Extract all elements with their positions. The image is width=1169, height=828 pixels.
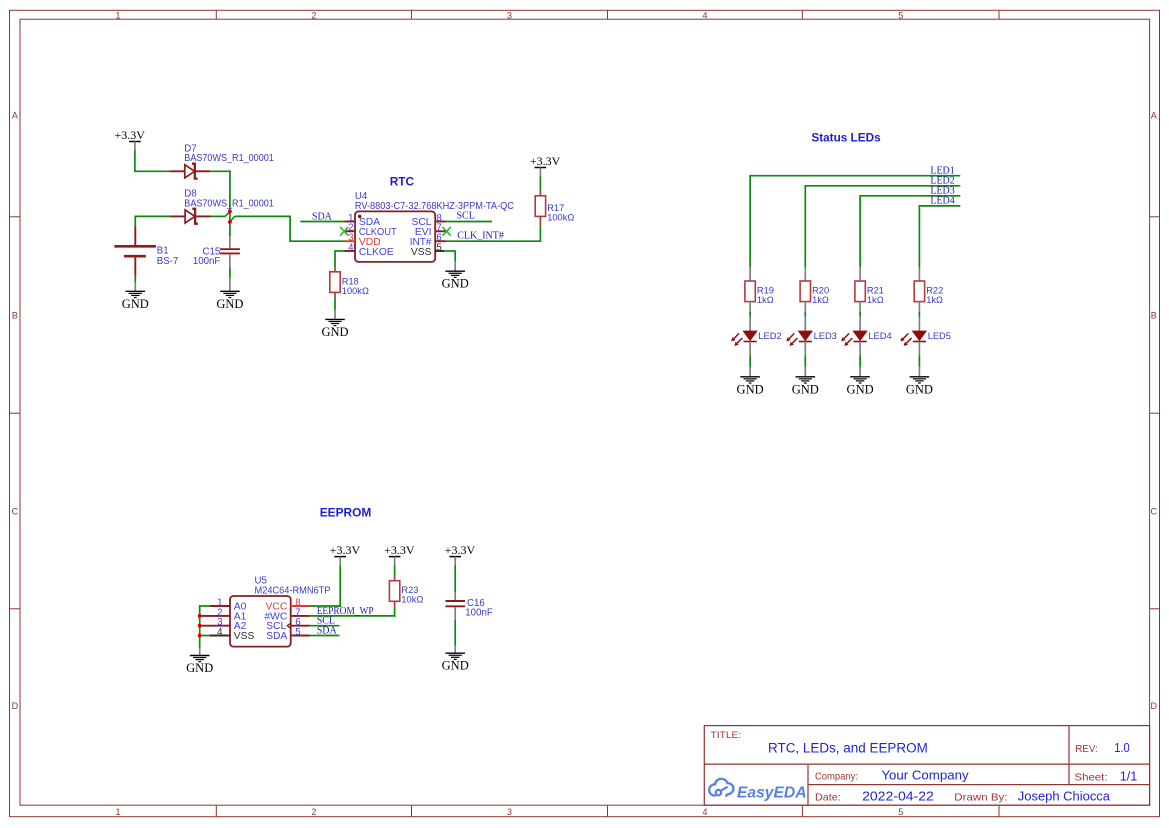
svg-text:1kΩ: 1kΩ	[926, 295, 943, 305]
svg-text:LED3: LED3	[814, 331, 837, 341]
svg-text:EasyEDA: EasyEDA	[737, 784, 807, 801]
ground U5	[186, 656, 213, 676]
ground C15	[216, 291, 243, 311]
wire junction down to C15	[229, 211, 231, 236]
svg-text:4: 4	[702, 10, 707, 20]
power flag +3.3V R23	[384, 543, 415, 566]
wire + net label SCL (U5)	[309, 616, 340, 627]
svg-text:3: 3	[507, 807, 512, 817]
svg-text:R21: R21	[867, 286, 884, 296]
svg-text:1.0: 1.0	[1114, 740, 1130, 755]
resistor R19	[745, 281, 774, 305]
wire +3.3V to R17	[539, 177, 541, 196]
svg-text:5: 5	[898, 807, 903, 817]
wire +3.3V to C16	[454, 566, 456, 601]
junction dots on address bus	[198, 614, 202, 638]
svg-text:Date:: Date:	[815, 793, 841, 804]
wire R to LED	[804, 302, 806, 331]
svg-text:R18: R18	[342, 277, 359, 287]
LED LED4	[841, 331, 892, 346]
wire A0/A1/A2/VSS bus to GND	[200, 605, 211, 655]
svg-text:D: D	[1151, 701, 1158, 711]
resistor R17	[535, 196, 574, 223]
capacitor C16	[446, 598, 493, 619]
svg-text:GND: GND	[847, 382, 874, 396]
svg-text:TITLE:: TITLE:	[711, 730, 742, 741]
svg-text:100nF: 100nF	[193, 256, 221, 267]
wire LED3 down to R	[859, 196, 861, 281]
EasyEDA logo	[709, 779, 806, 801]
svg-text:5: 5	[898, 10, 903, 20]
wire + net label LED2	[804, 175, 960, 186]
power flag +3.3V R17	[530, 154, 561, 177]
svg-text:VSS: VSS	[234, 631, 255, 642]
svg-text:B: B	[12, 310, 18, 320]
wire R to LED	[918, 302, 920, 331]
svg-text:+3.3V: +3.3V	[445, 543, 476, 557]
resistor R21	[855, 281, 884, 305]
svg-text:M24C64-RMN6TP: M24C64-RMN6TP	[255, 585, 331, 596]
U5 pin 4 VSS	[199, 627, 255, 642]
diode D8 (schottky)	[170, 209, 210, 224]
svg-text:Joseph Chiocca: Joseph Chiocca	[1018, 789, 1111, 804]
svg-text:1kΩ: 1kΩ	[867, 295, 884, 305]
svg-text:GND: GND	[186, 661, 213, 675]
svg-text:4: 4	[348, 242, 354, 253]
svg-text:CLK_INT#: CLK_INT#	[457, 231, 504, 242]
svg-text:CLKOE: CLKOE	[359, 247, 394, 258]
wire + net label LED4	[919, 196, 961, 207]
diode D7 (schottky)	[170, 164, 210, 179]
svg-text:BAS70WS_R1_00001: BAS70WS_R1_00001	[184, 153, 273, 164]
svg-text:GND: GND	[216, 297, 243, 311]
svg-text:100kΩ: 100kΩ	[547, 213, 574, 223]
svg-text:+3.3V: +3.3V	[330, 543, 361, 557]
U4 pin-1 marker dot	[358, 215, 361, 218]
U5 pin 1 A0	[210, 597, 247, 612]
wire C16 to GND	[454, 607, 456, 653]
svg-text:GND: GND	[792, 382, 819, 396]
U4 pin 2 CLKOUT (no connect)	[340, 223, 397, 238]
svg-text:BS-7: BS-7	[157, 256, 179, 267]
svg-text:5: 5	[295, 627, 300, 638]
ground B1	[122, 291, 149, 311]
ground LED5	[906, 377, 933, 397]
U5 pin 3 A2	[201, 617, 247, 632]
svg-text:2: 2	[311, 10, 316, 20]
svg-text:GND: GND	[737, 382, 764, 396]
svg-text:Your Company: Your Company	[881, 768, 969, 783]
wire LED to GND	[918, 342, 920, 377]
U4 pin 5 VSS	[411, 242, 444, 257]
svg-text:2022-04-22: 2022-04-22	[862, 789, 934, 804]
resistor R22	[914, 281, 943, 305]
U4 pin 4 CLKOE	[345, 242, 394, 257]
junction node dots	[228, 209, 232, 223]
wire LED to GND	[804, 342, 806, 377]
svg-text:A: A	[12, 110, 18, 120]
wire +3.3V to VCC pin 8	[309, 566, 341, 607]
svg-text:D: D	[12, 701, 19, 711]
wire LED2 down to R	[804, 186, 806, 281]
IC U5 body	[230, 596, 291, 647]
svg-text:4: 4	[702, 807, 707, 817]
svg-text:10kΩ: 10kΩ	[401, 595, 423, 605]
U4 pin 8 SCL	[411, 213, 445, 228]
power flag +3.3V U5 VCC	[330, 543, 361, 566]
svg-text:1kΩ: 1kΩ	[812, 295, 829, 305]
U5 pin 7 #WC	[264, 607, 309, 622]
svg-text:LED4: LED4	[930, 196, 954, 207]
wire + net label LED1	[749, 165, 960, 176]
wire C15 to GND	[229, 267, 231, 291]
battery B1	[114, 226, 178, 275]
wire LED to GND	[859, 342, 861, 377]
svg-text:GND: GND	[442, 277, 469, 291]
svg-text:R22: R22	[926, 286, 943, 296]
svg-text:B: B	[1151, 310, 1157, 320]
LED LED5	[900, 331, 951, 346]
wire + net label CLK_INT#	[446, 231, 541, 242]
IC U4 reference labels	[355, 191, 514, 212]
svg-text:100nF: 100nF	[465, 608, 493, 619]
svg-text:Company:: Company:	[815, 772, 858, 783]
svg-text:LED2: LED2	[758, 331, 781, 341]
svg-text:Drawn By:: Drawn By:	[954, 793, 1007, 804]
wire LED4 down to R	[918, 206, 920, 281]
svg-text:BAS70WS_R1_00001: BAS70WS_R1_00001	[184, 198, 273, 209]
wire battery to GND	[134, 276, 136, 291]
svg-text:+3.3V: +3.3V	[384, 543, 415, 557]
wire R to LED	[749, 302, 751, 331]
svg-text:LED4: LED4	[868, 331, 891, 341]
capacitor C15	[193, 236, 240, 267]
ground LED3	[792, 377, 819, 397]
svg-text:SCL: SCL	[457, 210, 475, 221]
wire LED1 down to R	[749, 176, 751, 281]
LED LED3	[786, 331, 837, 346]
svg-text:1: 1	[115, 10, 120, 20]
wire battery top to D8 anode	[134, 216, 170, 227]
U4 pin 1 SDA	[345, 213, 381, 228]
svg-text:+3.3V: +3.3V	[530, 154, 561, 168]
wire R23 to #WC + net label EEPROM_WP	[309, 601, 395, 617]
svg-text:C: C	[1151, 506, 1158, 516]
wire R17 to INT#	[539, 216, 541, 242]
svg-text:GND: GND	[442, 659, 469, 673]
svg-text:Status LEDs: Status LEDs	[811, 132, 880, 144]
svg-text:3: 3	[507, 10, 512, 20]
power flag +3.3V C16	[445, 543, 476, 566]
svg-text:R19: R19	[757, 286, 774, 296]
svg-text:SDA: SDA	[266, 631, 287, 642]
resistor R18	[330, 272, 369, 296]
title block texts	[711, 730, 1138, 804]
wire R to LED	[859, 302, 861, 331]
U5 pin 5 SDA	[266, 627, 310, 642]
title block	[704, 726, 1149, 806]
label D7	[184, 144, 273, 165]
svg-text:LED5: LED5	[928, 331, 951, 341]
svg-text:VSS: VSS	[411, 247, 432, 258]
svg-text:REV:: REV:	[1075, 744, 1098, 755]
wire + net label SDA	[300, 211, 344, 222]
wire VSS to GND	[444, 251, 456, 271]
svg-text:1kΩ: 1kΩ	[757, 295, 774, 305]
svg-text:GND: GND	[906, 382, 933, 396]
wire LED to GND	[749, 342, 751, 377]
ground LED4	[847, 377, 874, 397]
svg-text:A: A	[1151, 110, 1157, 120]
U4 pin 7 EVI (no connect)	[415, 223, 451, 238]
svg-text:SDA: SDA	[317, 626, 338, 637]
svg-text:1/1: 1/1	[1120, 769, 1138, 784]
U5 pin 6 SCL (clock wedge)	[266, 617, 310, 632]
resistor R20	[800, 281, 829, 305]
svg-text:B1: B1	[157, 246, 169, 257]
svg-text:Sheet:: Sheet:	[1075, 773, 1108, 784]
svg-text:SDA: SDA	[312, 211, 333, 222]
svg-text:RTC, LEDs, and EEPROM: RTC, LEDs, and EEPROM	[768, 741, 928, 756]
ground U4 VSS	[442, 271, 469, 291]
svg-text:4: 4	[217, 627, 223, 638]
ground C16	[442, 653, 469, 673]
wire + net label SCL	[446, 210, 492, 221]
svg-text:R17: R17	[547, 203, 564, 213]
wire D8 cathode to junction jog	[211, 211, 345, 241]
svg-text:RTC: RTC	[390, 175, 415, 189]
U5 pin 2 A1	[201, 607, 247, 622]
resistor R23	[389, 581, 423, 605]
U5 pin 8 VCC	[266, 597, 310, 612]
wire +3.3V to R23	[394, 566, 396, 581]
wire + net label SDA (U5)	[309, 626, 340, 637]
svg-text:+3.3V: +3.3V	[114, 128, 145, 142]
wire R18 to GND	[334, 292, 336, 319]
U4 pin 6 INT#	[410, 233, 446, 248]
IC U5 labels	[255, 576, 331, 597]
svg-text:C: C	[12, 506, 19, 516]
svg-text:R20: R20	[812, 286, 829, 296]
svg-text:1: 1	[115, 807, 120, 817]
svg-text:5: 5	[436, 242, 441, 253]
wire +3.3V to D7 anode	[134, 151, 170, 173]
ground LED2	[737, 377, 764, 397]
svg-text:GND: GND	[122, 297, 149, 311]
svg-text:2: 2	[311, 807, 316, 817]
wire CLKOE to R18	[335, 250, 345, 272]
LED LED2	[731, 331, 782, 346]
power flag +3.3V PWR1	[114, 128, 145, 151]
ground R18	[321, 319, 348, 339]
wire D7 cathode to junction	[210, 170, 230, 211]
svg-text:EEPROM: EEPROM	[320, 508, 372, 520]
svg-text:100kΩ: 100kΩ	[342, 286, 369, 296]
wire + net label LED3	[859, 185, 960, 196]
label D8	[184, 189, 273, 210]
U4 pin 3 VDD	[345, 233, 381, 248]
svg-text:GND: GND	[321, 325, 348, 339]
IC U4 body	[355, 211, 435, 262]
